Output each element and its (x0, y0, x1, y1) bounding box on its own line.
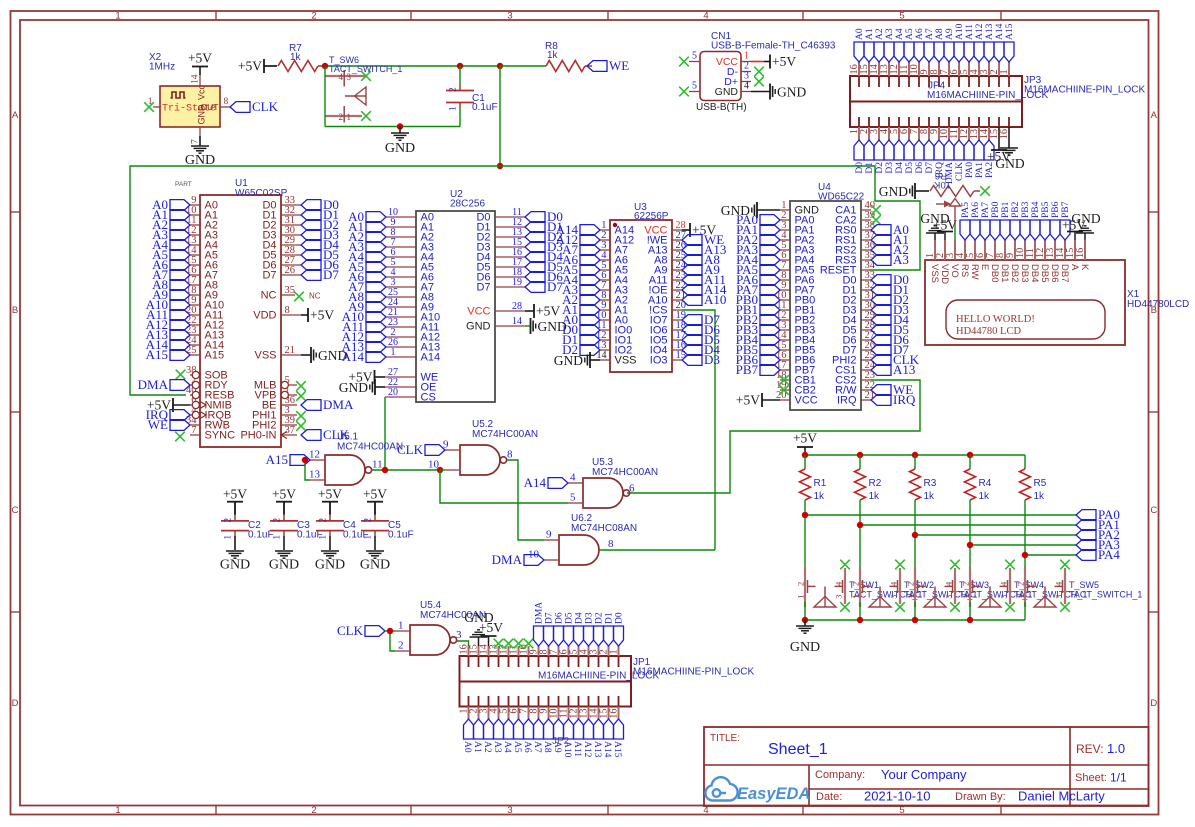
svg-text:14: 14 (512, 316, 522, 327)
svg-text:DB0: DB0 (989, 264, 1000, 282)
svg-text:62256P: 62256P (634, 211, 669, 222)
no-connect X SW1 pin3 (840, 560, 850, 570)
svg-text:MC74HC00AN: MC74HC00AN (472, 429, 538, 440)
svg-text:GND: GND (197, 104, 207, 125)
svg-text:DMA: DMA (535, 602, 545, 624)
svg-text:2: 2 (339, 112, 344, 122)
svg-text:A: A (12, 110, 19, 121)
svg-text:MC74HC00AN: MC74HC00AN (337, 442, 403, 453)
svg-text:5: 5 (899, 11, 904, 22)
svg-text:GND: GND (790, 640, 820, 655)
wire PA0 net (805, 514, 1076, 516)
svg-text:DB3: DB3 (1019, 264, 1030, 282)
IC U1 W65C02SP (175, 178, 301, 447)
svg-text:1: 1 (851, 595, 861, 599)
wire U5.1 inputs tied (305, 460, 310, 480)
svg-text:DB1: DB1 (999, 264, 1010, 282)
svg-text:DMA: DMA (138, 377, 169, 392)
svg-text:11: 11 (372, 459, 383, 471)
svg-text:K: K (1079, 264, 1090, 271)
svg-text:16: 16 (1075, 248, 1086, 258)
svg-text:CS: CS (421, 392, 436, 404)
svg-text:10K: 10K (933, 179, 951, 190)
svg-text:GND: GND (879, 184, 908, 199)
wire U6.2 output to U3 CS net (599, 549, 715, 551)
wire SW5 to ground rail (1024, 602, 1026, 620)
svg-text:Vcc: Vcc (197, 84, 207, 100)
tact switch SW3 (906, 567, 1033, 607)
svg-text:A5: A5 (512, 741, 522, 753)
svg-text:Sheet:: Sheet: (1075, 772, 1107, 784)
net flags D7-D0 (JP1 top) (544, 612, 625, 646)
svg-text:2: 2 (1016, 582, 1026, 586)
svg-text:2: 2 (906, 582, 916, 586)
power flag +5V (C3) (272, 487, 296, 515)
wire top rail to R8 (500, 65, 546, 67)
power ground flag (U2 GND) (525, 318, 567, 334)
svg-text:1k: 1k (290, 52, 302, 63)
net flag A15 (U5.1 input) (266, 452, 310, 467)
svg-text:NC: NC (261, 290, 277, 302)
svg-text:WD65C22: WD65C22 (818, 192, 865, 203)
no-connect X U1 MLB (296, 381, 306, 391)
svg-text:R2: R2 (869, 478, 882, 489)
no-connect X SW4 pin4 (1005, 602, 1015, 612)
svg-text:RW: RW (969, 264, 980, 280)
svg-text:13: 13 (309, 469, 321, 481)
no-connect X U1 PHI2 (296, 421, 306, 431)
svg-text:14: 14 (191, 74, 201, 84)
net flags D0-D7 IRQ DMA CLK PA0-PA2 (JP3) (854, 140, 995, 184)
svg-text:1/1: 1/1 (1110, 771, 1127, 785)
svg-text:GND: GND (220, 558, 250, 573)
wire U5.2 input 10 (440, 469, 445, 471)
svg-text:PA6: PA6 (971, 202, 981, 218)
svg-text:VCC: VCC (467, 306, 490, 318)
junction ground rail SW2 (857, 617, 863, 623)
svg-text:Company:: Company: (815, 769, 865, 781)
svg-text:A3: A3 (492, 741, 502, 753)
svg-text:PB7: PB7 (736, 362, 759, 377)
svg-text:VO: VO (949, 264, 960, 278)
net flag CLK (U1 PH0-IN) (301, 427, 350, 442)
svg-text:1: 1 (115, 805, 120, 816)
potentiometer R6 10K (930, 170, 980, 226)
svg-text:C: C (1150, 505, 1157, 516)
net flag WE (U1 RWB) (148, 417, 190, 432)
wire R6 wiper to LCD VO (954, 226, 956, 260)
svg-text:1k: 1k (869, 491, 881, 502)
net flag WE (R8) (587, 58, 629, 73)
svg-text:HD44780 LCD: HD44780 LCD (956, 326, 1021, 337)
svg-text:+5V: +5V (479, 620, 503, 635)
power flag +5V (U3 VCC) (682, 223, 716, 238)
power ground flag (U4 GND pin1) (721, 202, 780, 218)
svg-text:PA2: PA2 (985, 162, 995, 178)
net flags D0-D7 (U4 right) (871, 272, 909, 357)
svg-text:PA4: PA4 (1098, 547, 1120, 562)
svg-text:A7: A7 (532, 741, 542, 753)
svg-text:1: 1 (999, 69, 1010, 74)
svg-text:1k: 1k (979, 491, 991, 502)
wire R5 to PA4 tap (1024, 500, 1026, 568)
svg-text:19: 19 (512, 277, 522, 288)
svg-text:A13: A13 (592, 741, 602, 758)
tact switch SW2 (851, 567, 978, 607)
no-connect X U4 CA2 (871, 215, 881, 225)
svg-text:A15: A15 (146, 347, 168, 362)
svg-text:3: 3 (889, 595, 899, 599)
svg-text:+5V: +5V (223, 487, 247, 502)
svg-text:R4: R4 (979, 478, 992, 489)
svg-text:VDD: VDD (253, 310, 276, 322)
svg-text:8: 8 (224, 97, 229, 107)
svg-text:2: 2 (851, 582, 861, 586)
wire +5V to R7 (265, 65, 277, 67)
svg-text:9: 9 (546, 529, 552, 541)
header JP3 (bottom row) (849, 75, 1145, 140)
no-connect X U4 CB1 (779, 375, 789, 385)
wire SW2 to ground rail (859, 602, 861, 620)
wire U5.2 output to U6.2 input 9 (507, 460, 544, 540)
junction +5V rail R1 (802, 452, 808, 458)
junction +5V rail R4 (967, 452, 973, 458)
no-connect X CN1 D- (754, 67, 764, 77)
wire PA1 net (860, 524, 1076, 526)
svg-text:RS: RS (959, 264, 970, 277)
svg-text:D4: D4 (575, 612, 585, 624)
svg-text:1: 1 (448, 107, 458, 112)
svg-text:A11: A11 (572, 741, 582, 757)
svg-text:MC74HC00AN: MC74HC00AN (592, 467, 658, 478)
svg-text:D3: D3 (704, 352, 720, 367)
svg-text:T_SW5: T_SW5 (1069, 580, 1099, 590)
svg-text:VSS: VSS (929, 264, 940, 283)
svg-text:D3: D3 (885, 162, 895, 174)
svg-text:PB6: PB6 (1051, 201, 1061, 218)
net flag CLK (X2 OUT) (230, 99, 279, 114)
wire R1 to PA0 tap (804, 500, 806, 568)
svg-text:+5V: +5V (318, 487, 342, 502)
usb connector CN1 (689, 31, 836, 113)
svg-text:GND: GND (360, 558, 390, 573)
svg-text:GND: GND (715, 86, 739, 98)
svg-text:A1: A1 (472, 741, 482, 753)
svg-text:A: A (1151, 110, 1158, 121)
svg-text:D3: D3 (585, 612, 595, 624)
wire reset node top rail (325, 65, 500, 67)
svg-text:37: 37 (285, 425, 296, 436)
svg-text:D: D (1150, 698, 1157, 709)
svg-text:GND: GND (185, 153, 215, 168)
svg-text:D7: D7 (323, 267, 339, 282)
power flag +5V (CN1) (764, 54, 796, 69)
svg-text:A9: A9 (945, 28, 955, 40)
junction PA3 (967, 542, 973, 548)
svg-text:26: 26 (285, 265, 296, 276)
svg-text:GND: GND (777, 84, 806, 99)
wire PA3 net (970, 544, 1076, 546)
svg-text:IRQ: IRQ (837, 395, 857, 407)
wire reset vertical (499, 66, 501, 166)
wire R2 to PA1 tap (859, 500, 861, 568)
power flag +5V (U4 VCC) (736, 393, 780, 408)
svg-text:PB4: PB4 (1031, 201, 1041, 218)
svg-text:GND: GND (466, 321, 491, 333)
net flag DMA (U1 BE) (301, 397, 354, 412)
svg-text:A0: A0 (855, 28, 865, 40)
svg-text:MC74HC08AN: MC74HC08AN (571, 523, 637, 534)
resistor R1 1k (800, 455, 827, 502)
svg-text:WE: WE (609, 58, 629, 73)
svg-text:IO3: IO3 (650, 355, 668, 367)
svg-text:D1: D1 (605, 612, 615, 624)
svg-text:USB-B(TH): USB-B(TH) (696, 102, 747, 113)
svg-text:1: 1 (272, 535, 282, 540)
svg-text:VSS: VSS (254, 350, 276, 362)
svg-text:A13: A13 (985, 23, 995, 40)
svg-text:16: 16 (609, 709, 620, 719)
svg-text:D1: D1 (865, 162, 875, 174)
svg-text:DB7: DB7 (1059, 264, 1070, 282)
svg-text:D7: D7 (476, 282, 490, 294)
junction PA2 (912, 532, 918, 538)
svg-text:A1: A1 (865, 28, 875, 40)
svg-text:2021-10-10: 2021-10-10 (864, 789, 931, 804)
power ground flag (U3 VSS) (554, 352, 600, 368)
wire SW3 to ground rail (914, 602, 916, 620)
svg-text:1: 1 (318, 535, 328, 540)
svg-text:A2: A2 (482, 741, 492, 753)
svg-text:A14: A14 (421, 352, 441, 364)
svg-text:D6: D6 (555, 612, 565, 624)
no-connect X U4 CA1 (871, 205, 881, 215)
svg-text:+5V: +5V (310, 308, 334, 323)
svg-text:PB1: PB1 (1001, 201, 1011, 218)
power flag +5V (U2 WE) (348, 370, 385, 385)
svg-text:D0: D0 (615, 612, 625, 624)
svg-text:PA0: PA0 (965, 162, 975, 178)
capacitor C2 0.1uF (221, 502, 274, 550)
svg-text:GND: GND (795, 205, 820, 217)
resistor R7 (278, 43, 325, 72)
junction ground rail at GND (802, 617, 808, 623)
power flag +5V (X2) (188, 51, 212, 76)
svg-text:2: 2 (318, 518, 328, 523)
junction at GND branch (397, 123, 403, 129)
svg-text:REV:: REV: (1076, 742, 1104, 756)
ground (X2) (185, 136, 215, 168)
no-connect X SW2 pin3 (895, 560, 905, 570)
svg-text:1k: 1k (547, 50, 559, 61)
no-connect X SW3 pin3 (950, 560, 960, 570)
wire U5.4 output to JP1 pin16 (457, 641, 469, 646)
net flags A0-A3 (U4 RS0-RS3) (871, 222, 909, 267)
svg-text:CLK: CLK (955, 162, 965, 181)
nand gate U5.1 MC74HC00AN (309, 432, 403, 486)
svg-text:D5: D5 (905, 162, 915, 174)
no-connect X SW5 pin3 (1060, 560, 1070, 570)
tact switch SW6 (325, 55, 402, 123)
svg-text:+5V: +5V (188, 51, 212, 66)
svg-text:A14: A14 (995, 23, 1005, 40)
svg-text:PA1: PA1 (975, 162, 985, 178)
svg-text:SYNC: SYNC (205, 430, 236, 442)
net flag A13 (U4 CS1) (871, 362, 915, 377)
no-connect X U1 NC pin35 (294, 292, 321, 302)
svg-text:C: C (12, 505, 19, 516)
svg-text:+5V: +5V (536, 304, 560, 319)
svg-text:TACT_SWITCH_1: TACT_SWITCH_1 (329, 64, 402, 74)
header JP4 (top row) (849, 62, 1048, 102)
svg-text:A6: A6 (522, 741, 532, 753)
svg-text:1MHz: 1MHz (149, 62, 175, 73)
net flags D0-D7 (U1 right) (301, 197, 339, 282)
svg-text:A10: A10 (955, 23, 965, 40)
junction +5V rail R2 (857, 452, 863, 458)
svg-text:A0: A0 (462, 741, 472, 753)
power flag +5V (C2) (223, 487, 247, 515)
net flag IRQ (U4 IRQ) (871, 392, 916, 407)
svg-text:GND: GND (339, 380, 368, 395)
power ground (JP3 pin16) (995, 127, 1024, 171)
junction U5.1 out to U2 CS (382, 467, 388, 473)
svg-text:D2: D2 (595, 612, 605, 624)
svg-text:7: 7 (191, 139, 201, 144)
capacitor C5 0.1uF (361, 502, 414, 550)
capacitor C3 0.1uF (270, 502, 323, 550)
svg-text:B: B (12, 305, 18, 316)
svg-text:A8: A8 (935, 28, 945, 40)
svg-text:D5: D5 (565, 612, 575, 624)
svg-text:D7: D7 (262, 270, 276, 282)
svg-text:3: 3 (944, 595, 954, 599)
wire SW4 to ground rail (969, 602, 971, 620)
svg-text:3: 3 (1054, 595, 1064, 599)
svg-text:28: 28 (512, 301, 522, 312)
ground (C3) (269, 551, 299, 573)
junction ground rail SW3 (912, 617, 918, 623)
svg-text:A14: A14 (602, 741, 612, 758)
power ground flag (CN1) (751, 84, 806, 100)
svg-text:5: 5 (692, 51, 697, 62)
svg-text:+5V: +5V (933, 218, 957, 233)
no-connect X JP1 pins 13-10 (494, 639, 534, 649)
wire U5.1 out to U5.3 input 5 (440, 470, 568, 503)
no-connect X on SW6 pin 3 (361, 71, 371, 81)
svg-text:A15: A15 (612, 741, 622, 758)
svg-text:D7: D7 (925, 162, 935, 174)
svg-text:VCC: VCC (644, 225, 667, 237)
svg-text:VSS: VSS (615, 355, 637, 367)
svg-text:1: 1 (609, 649, 620, 654)
net flag DMA (JP1 pin9) (534, 602, 545, 646)
power flag +5V (X1 A pin15) (1062, 218, 1086, 241)
junction reset rail (497, 163, 503, 169)
svg-text:4: 4 (703, 11, 708, 22)
svg-text:2: 2 (961, 582, 971, 586)
nand gate U5.2 MC74HC00AN (428, 419, 538, 475)
title block (704, 727, 1149, 806)
resistor R8 (545, 41, 592, 72)
svg-text:PA7: PA7 (981, 202, 991, 218)
svg-text:M16MACHIINE-PIN_LOCK: M16MACHIINE-PIN_LOCK (538, 671, 659, 682)
svg-text:DB4: DB4 (1029, 264, 1040, 282)
net flag IRQ (U1 IRQB) (146, 407, 190, 422)
net flags PA0-PA4 (1076, 507, 1120, 562)
no-connect X U1 VPB (296, 391, 306, 401)
svg-text:TITLE:: TITLE: (710, 733, 740, 744)
power flag +5V (C4) (318, 487, 342, 515)
svg-text:DB2: DB2 (1009, 264, 1020, 282)
svg-text:1: 1 (1016, 595, 1026, 599)
svg-text:2: 2 (311, 805, 316, 816)
svg-text:0.1uF: 0.1uF (248, 530, 274, 541)
svg-text:A6: A6 (915, 28, 925, 40)
svg-text:VDD: VDD (939, 264, 950, 284)
wire PA4 net (1025, 554, 1076, 556)
svg-text:D6: D6 (915, 162, 925, 174)
svg-text:PB2: PB2 (1011, 201, 1021, 218)
net flags A0-A15 (U1 left) (146, 197, 190, 362)
svg-text:1: 1 (347, 112, 352, 122)
and gate U6.2 MC74HC08AN (528, 513, 637, 565)
svg-text:3: 3 (456, 629, 462, 641)
svg-text:+5V: +5V (736, 393, 760, 408)
svg-text:1: 1 (223, 535, 233, 540)
svg-text:5: 5 (692, 81, 697, 92)
svg-text:+5V: +5V (772, 54, 796, 69)
IC U2 28C256 (385, 189, 525, 404)
net flags D7-D3 (U3 right lower) (682, 312, 720, 367)
junction U5.4 input (387, 628, 393, 634)
junction U5.1 input (302, 457, 308, 463)
svg-text:A2: A2 (875, 28, 885, 40)
no-connect X SW1 pin4 (840, 602, 850, 612)
net flag CLK (U5.4 input) (337, 623, 385, 638)
svg-text:Sheet_1: Sheet_1 (768, 741, 828, 758)
wire R4 to PA3 tap (969, 500, 971, 568)
svg-text:2: 2 (398, 640, 404, 652)
svg-text:1: 1 (363, 535, 373, 540)
svg-text:USB-B-Female-TH_C46393: USB-B-Female-TH_C46393 (711, 41, 836, 52)
svg-text:WE: WE (148, 417, 168, 432)
svg-text:GND: GND (269, 558, 299, 573)
svg-text:Drawn By:: Drawn By: (955, 791, 1006, 803)
tact switch SW4 (961, 567, 1088, 607)
net flag CLK (U4 PHI2) (871, 352, 920, 367)
net flag DMA (U1 RDY) (138, 377, 190, 392)
junction PA0 (802, 512, 808, 518)
svg-text:R1: R1 (814, 478, 827, 489)
header JP2 (bottom row) (459, 682, 632, 748)
svg-text:10: 10 (428, 459, 440, 471)
power flag +5V (U1 VDD) (301, 308, 334, 323)
wire CN1 VCC (red) (751, 61, 764, 63)
svg-text:D0: D0 (855, 162, 865, 174)
junction +5V rail R3 (912, 452, 918, 458)
svg-text:A8: A8 (542, 741, 552, 753)
net flags A0-A15 (JP1 bottom) (462, 719, 623, 758)
wire SW6 bottom to C1 bottom (325, 126, 460, 128)
svg-text:PA5: PA5 (961, 202, 971, 218)
svg-text:R3: R3 (924, 478, 937, 489)
svg-text:GND: GND (1071, 211, 1100, 226)
wire SW1 to ground rail (804, 602, 806, 620)
power ground (X1 K pin16) (1071, 211, 1100, 240)
net flag DMA (U6.2 input 10) (492, 552, 544, 567)
power ground flag (U2 OE) (339, 379, 385, 395)
